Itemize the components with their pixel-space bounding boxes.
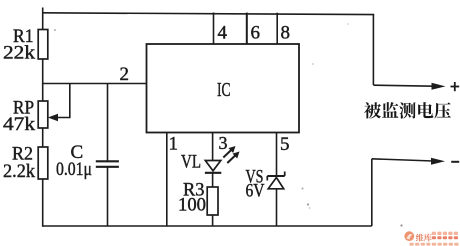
wire left rail to R1 [42, 13, 44, 30]
svg-text:1: 1 [169, 134, 179, 155]
wire bottom right rail up [371, 159, 373, 226]
minus terminal [451, 161, 459, 163]
watermark brand text [416, 234, 432, 242]
capacitor C plate top [96, 160, 119, 162]
svg-text:VL: VL [181, 152, 201, 173]
label monitored voltage (Chinese) [364, 102, 451, 119]
potentiometer RP [38, 101, 48, 128]
svg-text:2: 2 [120, 64, 130, 85]
resistor R3 [207, 187, 218, 215]
svg-text:3: 3 [219, 133, 228, 153]
wire R3 to bottom rail [212, 215, 214, 226]
pin 6 wire [246, 13, 248, 44]
pin 3 wire [212, 133, 214, 162]
wire R2 to bottom rail [42, 179, 44, 227]
wire node 2 down to RP [42, 84, 44, 102]
wire capacitor branch top [107, 84, 109, 162]
pin 8 wire [276, 13, 278, 44]
arrowhead positive output [432, 83, 446, 90]
svg-text:6V: 6V [246, 181, 265, 202]
wire negative output [372, 159, 433, 161]
wire right rail down from top [372, 14, 374, 85]
wire RP wiper branch [53, 84, 70, 118]
arrowhead RP wiper [48, 114, 58, 121]
svg-text:IC: IC [217, 79, 231, 101]
watermark logo circle [404, 231, 414, 241]
LED light arrow 2 [227, 155, 236, 163]
svg-text:0.01μ: 0.01μ [56, 159, 92, 180]
resistor R1 [38, 30, 48, 60]
svg-text:4: 4 [218, 23, 228, 44]
LED light arrow 1 [223, 149, 232, 157]
wire bottom rail [43, 225, 372, 227]
arrowhead negative output [431, 158, 445, 165]
pin 4 wire [213, 13, 215, 45]
wire LED to R3 [212, 173, 214, 188]
zener VS left wing [266, 176, 268, 181]
wire zener to bottom rail [276, 189, 278, 226]
resistor R2 [38, 147, 48, 179]
wire positive output [373, 85, 433, 86]
plus terminal [451, 86, 460, 88]
zener diode VS triangle [268, 178, 284, 189]
svg-text:8: 8 [281, 23, 291, 44]
svg-text:2.2k: 2.2k [3, 161, 35, 182]
watermark bottom tiny text row [410, 243, 459, 246]
svg-text:100: 100 [178, 195, 206, 216]
capacitor C plate bottom [96, 166, 119, 168]
wire RP to R2 [42, 128, 44, 148]
svg-text:6: 6 [251, 23, 261, 44]
wire R1 to node 2 [42, 59, 44, 84]
svg-text:5: 5 [280, 134, 290, 155]
wire node 2 horizontal to IC pin 2 [43, 83, 147, 85]
svg-text:22k: 22k [3, 43, 36, 64]
svg-text:47k: 47k [3, 114, 36, 135]
zener diode VS bar [267, 175, 284, 177]
wire capacitor branch bottom [107, 167, 109, 226]
zener VS right wing [284, 172, 286, 177]
LED VL cathode bar [205, 172, 221, 174]
scan speckles [54, 23, 403, 226]
wire stub above top-left corner [42, 8, 44, 14]
wire top positive rail [43, 13, 375, 15]
watermark small caption lines [432, 232, 458, 240]
pin 5 wire [276, 133, 278, 177]
op-amp U1 IC box [147, 44, 300, 133]
pin 1 wire [166, 133, 168, 227]
LED VL triangle [205, 161, 221, 171]
